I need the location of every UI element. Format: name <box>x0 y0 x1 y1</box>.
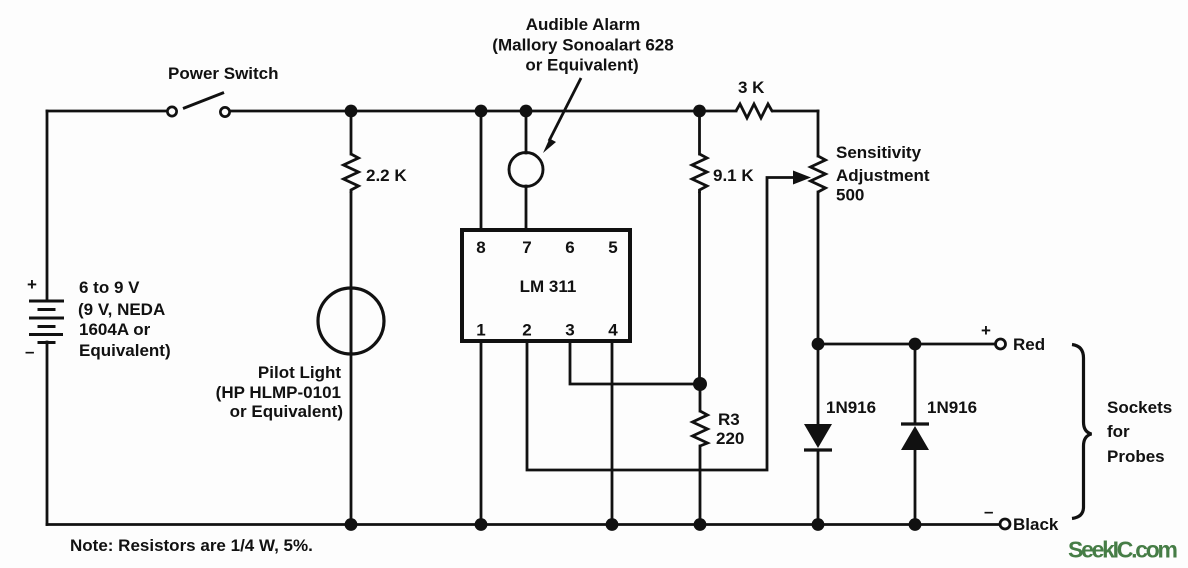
svg-text:for: for <box>1107 422 1130 441</box>
node junction bottom D2 <box>909 518 922 531</box>
wire 9.1K top lead <box>698 111 701 154</box>
svg-text:6: 6 <box>565 238 574 257</box>
pilot light DS1 <box>318 288 384 354</box>
svg-text:500: 500 <box>836 186 864 205</box>
svg-text:1: 1 <box>476 321 485 340</box>
audible alarm label <box>492 15 673 75</box>
wire output rail to Red socket <box>818 343 995 346</box>
resistor 3K horizontal <box>736 104 773 118</box>
potentiometer R500 sensitivity <box>811 156 826 192</box>
wire pot bottom lead <box>817 192 820 344</box>
socket Red terminal <box>996 339 1006 349</box>
svg-text:1604A or: 1604A or <box>79 320 151 339</box>
svg-text:Adjustment: Adjustment <box>836 166 930 185</box>
svg-text:or Equivalent): or Equivalent) <box>230 402 343 421</box>
node junction top alarm <box>520 105 533 118</box>
wire pin1 to bottom rail <box>480 342 483 525</box>
wire pot top lead <box>817 111 820 156</box>
power switch S1 <box>167 93 229 117</box>
op-amp U1 LM311 body <box>462 230 630 341</box>
node junction bottom D1 <box>812 518 825 531</box>
node junction output-D2 <box>909 338 922 351</box>
wire 2.2K branch top lead <box>350 111 353 154</box>
svg-text:R3: R3 <box>718 410 740 429</box>
wire top rail after 3K to pot corner <box>773 110 818 113</box>
wire left rail (battery to bottom) <box>46 342 49 525</box>
node junction top 9.1K <box>693 105 706 118</box>
svg-text:3 K: 3 K <box>738 78 765 97</box>
svg-text:5: 5 <box>608 238 617 257</box>
brace sockets for probes <box>1072 345 1092 519</box>
svg-text:Sockets: Sockets <box>1107 398 1172 417</box>
svg-text:or Equivalent): or Equivalent) <box>525 56 638 75</box>
svg-text:Red: Red <box>1013 335 1045 354</box>
svg-text:(9 V, NEDA: (9 V, NEDA <box>78 300 165 319</box>
svg-text:8: 8 <box>476 238 485 257</box>
svg-text:–: – <box>25 342 34 361</box>
wire top rail right of switch <box>231 110 736 113</box>
wire pin4 to bottom rail <box>611 342 614 525</box>
svg-text:1N916: 1N916 <box>927 398 977 417</box>
wire 9.1K bottom lead to node <box>698 193 701 384</box>
audible alarm LS1 <box>509 153 543 187</box>
socket Black terminal <box>1000 519 1010 529</box>
svg-text:Power Switch: Power Switch <box>168 64 279 83</box>
node junction bottom pin1 <box>475 518 488 531</box>
wire diode D1 top lead <box>817 344 820 424</box>
svg-text:SeekIC.com: SeekIC.com <box>1068 537 1178 563</box>
resistor 9.1K <box>692 154 707 193</box>
node junction output-pot <box>812 338 825 351</box>
svg-text:Black: Black <box>1013 515 1059 534</box>
potentiometer label <box>836 143 930 205</box>
wire left rail (battery to top) <box>46 111 49 301</box>
sockets for probes label <box>1107 398 1172 466</box>
svg-text:2: 2 <box>522 321 531 340</box>
node junction bottom pin4 <box>606 518 619 531</box>
node junction pin3-R3 <box>693 377 707 391</box>
svg-text:3: 3 <box>565 321 574 340</box>
resistor 2.2K <box>344 154 359 193</box>
svg-text:–: – <box>984 502 993 521</box>
wire top rail left segment <box>47 110 166 113</box>
svg-text:2.2 K: 2.2 K <box>366 166 407 185</box>
wire node to R3 <box>699 384 702 411</box>
node junction top pin8 <box>475 105 488 118</box>
svg-text:LM 311: LM 311 <box>520 277 577 296</box>
svg-text:Equivalent): Equivalent) <box>79 341 171 360</box>
wire diode D2 bottom lead <box>914 450 917 525</box>
wire 2.2K to pilot light <box>350 193 353 354</box>
wire alarm to pin7 <box>525 186 528 229</box>
node junction top 2.2K <box>345 105 358 118</box>
battery B1 6-9V <box>29 301 64 343</box>
svg-text:4: 4 <box>608 321 618 340</box>
svg-text:1N916: 1N916 <box>826 398 876 417</box>
node junction bottom R3 <box>694 518 707 531</box>
wire pin3 to node R3 <box>570 342 700 384</box>
wire pin8 to top rail <box>480 111 483 229</box>
wire pilot light to bottom rail <box>350 288 353 525</box>
diode D1 1N916 <box>804 424 832 450</box>
svg-text:6 to 9 V: 6 to 9 V <box>79 278 140 297</box>
svg-text:Sensitivity: Sensitivity <box>836 143 922 162</box>
wire diode D1 bottom lead <box>817 450 820 525</box>
svg-text:Pilot Light: Pilot Light <box>258 363 341 382</box>
wire alarm top lead <box>525 111 528 153</box>
svg-text:+: + <box>27 275 37 294</box>
resistor R3 220 <box>693 411 708 446</box>
svg-text:(Mallory Sonoalart 628: (Mallory Sonoalart 628 <box>492 36 673 55</box>
svg-text:9.1 K: 9.1 K <box>713 166 754 185</box>
diode D2 1N916 <box>901 424 929 450</box>
svg-text:+: + <box>981 321 991 340</box>
battery value label <box>78 278 171 360</box>
audible alarm pointer arrow <box>543 78 581 153</box>
svg-text:7: 7 <box>522 238 531 257</box>
potentiometer wiper arrow <box>793 171 811 185</box>
wire R3 to bottom rail <box>699 446 702 525</box>
wire bottom rail <box>47 523 999 526</box>
wire pin2 down <box>527 178 795 471</box>
svg-text:(HP HLMP-0101: (HP HLMP-0101 <box>216 383 341 402</box>
svg-text:Note: Resistors are 1/4 W, 5%.: Note: Resistors are 1/4 W, 5%. <box>70 536 313 555</box>
svg-text:220: 220 <box>716 429 744 448</box>
node junction bottom pilot <box>345 518 358 531</box>
pilot light label <box>216 363 343 421</box>
wire diode D2 top lead <box>914 344 917 424</box>
svg-text:Audible Alarm: Audible Alarm <box>526 15 641 34</box>
svg-text:Probes: Probes <box>1107 447 1165 466</box>
